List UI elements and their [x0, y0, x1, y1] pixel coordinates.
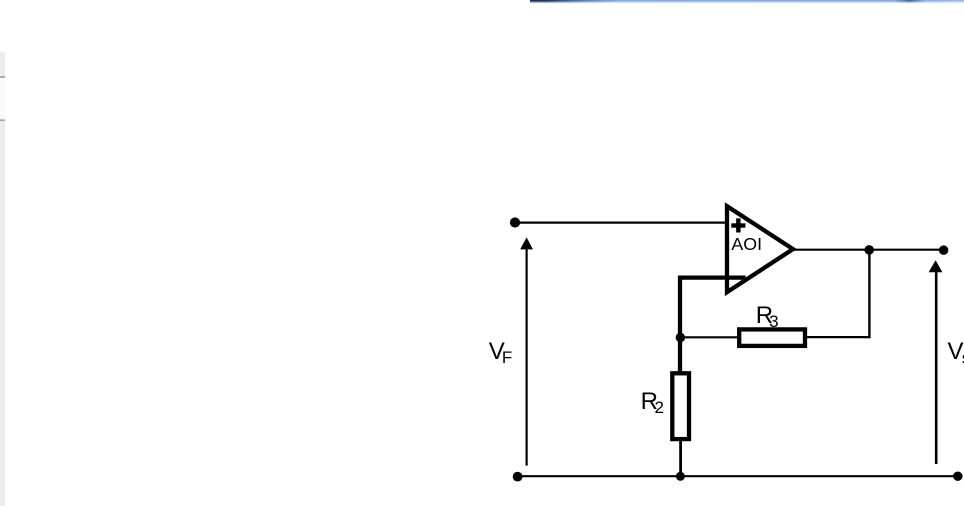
node: bottom-right	[953, 471, 963, 481]
left sidebar divider 1	[0, 76, 5, 78]
node: top-left input	[510, 217, 520, 227]
node: inverting input junction	[676, 333, 686, 343]
left sidebar strip segment 2	[0, 78, 5, 119]
voltage arrow VF (line)	[525, 249, 527, 466]
top window edge bar	[530, 0, 964, 2]
resistor R2	[672, 373, 689, 439]
node: output feedback junction	[864, 245, 874, 255]
left sidebar strip segment 1	[0, 52, 5, 77]
node: bottom junction under R2	[676, 472, 685, 481]
svg-text:2: 2	[655, 398, 664, 417]
voltage arrow VF (head)	[520, 237, 533, 249]
node: bottom-left	[513, 472, 523, 482]
op-amp U1 triangle	[727, 206, 793, 292]
voltage arrow Vo (line)	[935, 272, 938, 465]
wire: R2 bottom to bottom rail	[679, 441, 682, 477]
wire: op-amp output	[794, 249, 944, 251]
node: output right end	[939, 245, 949, 255]
left sidebar strip segment 3	[0, 121, 5, 506]
wire: feedback horizontal to R3 right	[806, 336, 869, 338]
svg-text:F: F	[502, 348, 512, 367]
svg-text:3: 3	[769, 312, 778, 331]
wire: bottom rail	[517, 475, 958, 477]
wire: inverting input L-path with minus bar	[680, 278, 746, 373]
op-amp plus sign (non-inverting input)	[731, 218, 745, 232]
wire: feedback vertical from output node	[868, 250, 870, 339]
wire: non-inverting input (top rail)	[515, 222, 727, 224]
wire: R3 left to inverting node	[680, 336, 738, 338]
voltage arrow Vo (head)	[929, 260, 943, 272]
left sidebar divider 2	[0, 119, 5, 121]
svg-text:AOI: AOI	[731, 234, 762, 254]
resistor R3	[739, 329, 805, 346]
